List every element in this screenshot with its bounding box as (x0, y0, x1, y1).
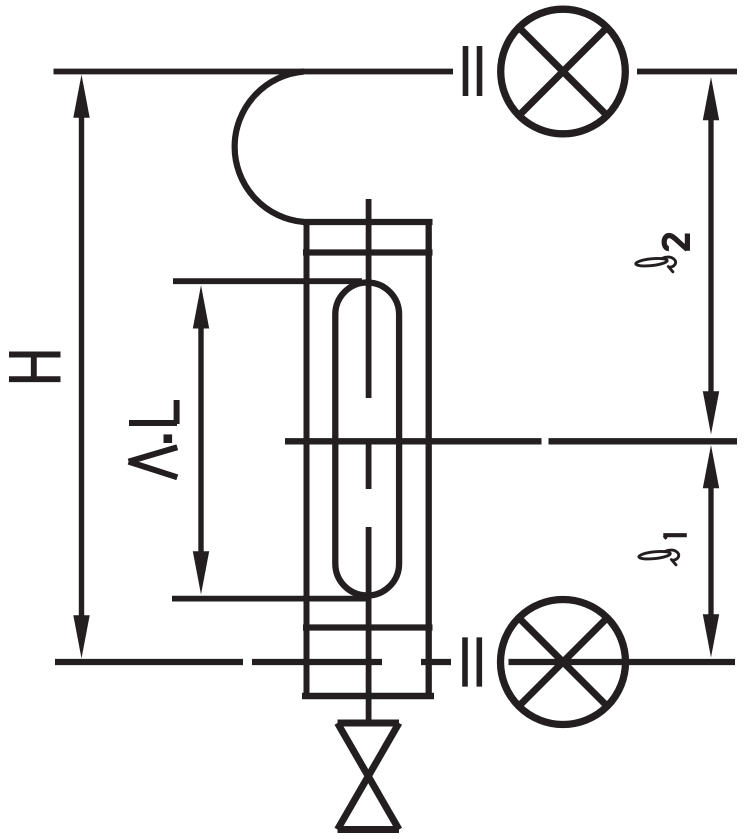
V.L extension line bottom (172, 596, 370, 602)
dot (164, 434, 173, 443)
label V.L (129, 400, 178, 477)
dimension H arrow up (73, 75, 89, 118)
dimension V.L line (198, 326, 203, 552)
top pipe line (54, 69, 454, 75)
vertical centerline segment 3 (366, 527, 372, 723)
top connection break ticks (463, 46, 469, 96)
dimension l1 arrow up (703, 445, 719, 488)
label l2 subscript 2 (664, 234, 687, 251)
dimension V.L arrow up (193, 285, 209, 328)
sight glass window (335, 283, 399, 596)
top right pipe line (637, 69, 737, 75)
bottom valve V2 circle (501, 600, 626, 725)
vertical centerline segment 2 (366, 441, 372, 489)
bottom connection break ticks (462, 637, 468, 686)
dimension l2 arrow down (703, 391, 719, 434)
V rotated (129, 447, 178, 461)
gauge body top flange line (303, 249, 433, 255)
vertical centerline segment 1 (366, 199, 372, 398)
V.L extension line top (173, 278, 362, 284)
bottom valve V2 cross (519, 618, 607, 706)
bottom pipe line through valve (509, 659, 736, 665)
label H (9, 355, 61, 380)
top valve V1 circle (501, 9, 626, 134)
syphon loop arc (235, 72, 304, 223)
dimension l2 arrow up (703, 77, 719, 120)
gauge body bottom flange line (303, 624, 433, 630)
label l2 script ell (635, 257, 675, 272)
gauge body bottom line (302, 693, 434, 700)
drain valve bowtie (338, 720, 400, 727)
label l1 script ell (639, 550, 679, 565)
top valve V1 cross (519, 28, 607, 116)
label l1 subscript 1 (663, 535, 687, 539)
dimension H line (79, 116, 84, 616)
dimension V.L arrow down (193, 551, 209, 594)
bottom pipe centerline segment 1 (55, 659, 243, 665)
L rotated (129, 420, 177, 426)
dimension l1 line (708, 486, 713, 616)
dimension l1 arrow down (703, 614, 719, 657)
horizontal centerline segment 2 (549, 438, 738, 444)
gauge body top line (303, 219, 433, 225)
bottom pipe centerline segment 2 (252, 659, 382, 665)
gauge body right edge (426, 222, 432, 696)
gauge body left edge (304, 222, 310, 696)
dimension H arrow down (73, 615, 89, 658)
horizontal centerline segment 1 (285, 438, 542, 444)
dimension l2 line (708, 119, 713, 393)
bottom pipe centerline segment 3 (421, 659, 451, 665)
